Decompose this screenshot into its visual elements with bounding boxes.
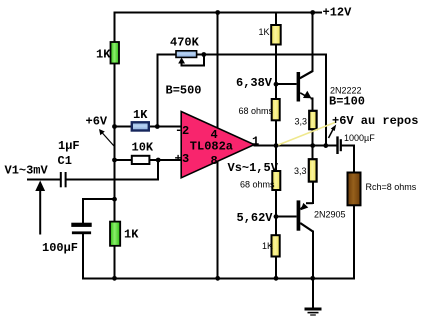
node G junction 10K / non-inverting input <box>156 158 161 163</box>
wire feedback from pot right to output node <box>197 54 326 147</box>
node F junction bias / 10K <box>112 158 117 163</box>
svg-text:Rch=8 ohms: Rch=8 ohms <box>366 182 417 192</box>
wire 2N2222 emitter to 3.3 resistor <box>312 98 314 112</box>
wire right divider column x=276 <box>275 12 277 280</box>
node H junction bias / 100uF <box>112 197 117 202</box>
resistor Rch 8 ohms (brown) <box>348 173 361 206</box>
svg-text:3,3: 3,3 <box>294 166 307 176</box>
annotation arrow +6V node <box>99 129 114 146</box>
transistor Q1 2N2222 <box>297 71 313 102</box>
svg-text:+12V: +12V <box>323 6 353 20</box>
potentiometer P1 470K <box>176 51 197 64</box>
wire 2N2905 emitter lead <box>312 181 314 204</box>
svg-text:V1~3mV: V1~3mV <box>5 164 49 178</box>
annotation arrow to +6V au repos <box>329 125 337 139</box>
svg-text:8: 8 <box>211 154 218 168</box>
resistor R2 1K (green, bottom left) <box>110 222 120 246</box>
svg-text:+6V: +6V <box>86 115 108 129</box>
svg-text:68 ohms: 68 ohms <box>240 180 275 190</box>
wire pot wiper to right terminal <box>181 54 205 67</box>
svg-text:B=100: B=100 <box>329 95 365 109</box>
wire bottom ground rail <box>82 277 354 279</box>
svg-text:100µF: 100µF <box>42 241 78 255</box>
wire 2N2222 collector from +12V <box>312 12 314 73</box>
svg-text:3,3: 3,3 <box>295 117 308 127</box>
transistor Q2 2N2905 <box>297 200 313 231</box>
svg-text:+6V au repos: +6V au repos <box>332 114 418 128</box>
wire +12V top rail <box>114 12 323 14</box>
capacitor C3 1000uF <box>336 136 342 154</box>
wire 1000uF to Rch <box>342 145 355 173</box>
svg-text:5,62V: 5,62V <box>237 211 274 225</box>
node C junction pot right terminal <box>201 52 206 57</box>
wire 2N2222 base <box>275 83 297 85</box>
ground symbol <box>305 308 322 316</box>
capacitor C1 1uF <box>60 172 67 187</box>
wire 2N2905 base <box>275 216 297 218</box>
resistor R9 3.3 ohms (top) <box>309 111 316 129</box>
wire output node to 3.3 bottom resistor <box>312 145 314 160</box>
svg-text:6,38V: 6,38V <box>236 76 273 90</box>
node M junction 5.62V base <box>274 214 279 219</box>
svg-text:+: + <box>175 152 182 166</box>
svg-text:4: 4 <box>211 128 218 142</box>
node B junction top rail / collector column <box>310 10 315 15</box>
resistor R3 1K (blue, horizontal) <box>132 122 149 130</box>
wire 100uF bottom lead <box>82 234 84 279</box>
yellow annotation wire output to +6V au repos <box>278 122 336 145</box>
resistor R5 1K (yellow, top right) <box>271 25 281 45</box>
node N junction bottom rail / bias <box>112 276 117 281</box>
svg-text:2: 2 <box>182 124 189 138</box>
node D junction bias / 1K <box>112 124 117 129</box>
svg-text:1K: 1K <box>259 27 270 37</box>
svg-text:1000µF: 1000µF <box>344 133 375 143</box>
wire 3.3 top resistor to output node <box>312 129 314 146</box>
svg-text:Vs~1,5V: Vs~1,5V <box>228 161 279 175</box>
svg-text:B=500: B=500 <box>166 84 202 98</box>
resistor R10 3.3 ohms (bottom) <box>309 159 317 181</box>
wire output row y=145.6 <box>254 145 337 147</box>
wire input signal row y=179.6 <box>27 160 159 180</box>
node P junction bottom rail / divider <box>274 276 279 281</box>
resistor R8 1K (yellow, bottom right) <box>272 235 280 256</box>
wire op-amp supply column x=217.7 <box>217 12 219 280</box>
node K junction output / emitters <box>310 143 315 148</box>
node Q junction bottom rail / ground <box>310 276 315 281</box>
svg-text:1µF: 1µF <box>58 139 80 153</box>
node O junction bottom rail / op-amp column <box>215 276 220 281</box>
wire inverting input row y=126.5 <box>114 126 182 128</box>
resistor R1 1K (green, top left) <box>111 42 120 64</box>
node J junction output / divider <box>274 143 279 148</box>
capacitor C2 100uF <box>71 223 91 235</box>
op-amp U1 TL082a <box>181 112 254 178</box>
svg-text:3: 3 <box>182 152 189 166</box>
source arrow V1 <box>35 181 45 235</box>
node I junction 6.38V base <box>274 82 279 87</box>
wire left bias column x=114.5 <box>114 12 116 280</box>
svg-text:10K: 10K <box>132 141 154 155</box>
wire pot left terminal to inverting input <box>157 54 176 128</box>
node E junction feedback / inverting input <box>155 124 160 129</box>
wire Rch bottom lead <box>353 205 355 279</box>
resistor R7 68 ohms (bottom) <box>272 171 280 190</box>
svg-text:C1: C1 <box>58 154 72 168</box>
svg-text:2N2222: 2N2222 <box>330 86 362 96</box>
svg-text:1: 1 <box>252 135 259 149</box>
resistor R4 10K (white, horizontal) <box>132 156 150 164</box>
svg-text:1K: 1K <box>133 108 148 122</box>
node A junction top rail / op-amp column <box>215 10 220 15</box>
svg-text:470K: 470K <box>170 36 200 50</box>
svg-text:1K: 1K <box>124 228 139 242</box>
svg-text:68 ohms: 68 ohms <box>239 106 274 116</box>
node L junction output / feedback <box>323 143 328 148</box>
svg-text:2N2905: 2N2905 <box>314 210 346 220</box>
wire 2N2905 collector to ground <box>312 231 314 309</box>
wire non-inverting input row y=160 <box>114 159 182 161</box>
svg-text:1K: 1K <box>262 241 273 251</box>
svg-text:1K: 1K <box>96 48 111 62</box>
resistor R6 68 ohms (top) <box>272 99 280 120</box>
wire 100uF top branch y=199.2 <box>82 198 115 223</box>
